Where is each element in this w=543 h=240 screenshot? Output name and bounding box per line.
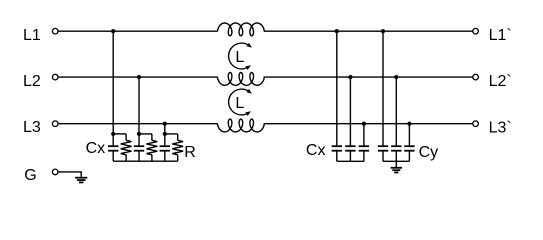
svg-text:L: L: [235, 49, 244, 66]
junction on L1 at x=336.8: [335, 29, 339, 33]
junction on L3 at x=409.4: [407, 122, 411, 126]
capacitor Cy on L1: [378, 145, 388, 147]
wire L1 down to Cy capacitor: [382, 31, 384, 146]
junction on L1 at x=113.2: [111, 29, 115, 33]
terminal L2` (right): [473, 74, 479, 80]
wire L2 down to Cx/R node: [138, 77, 140, 134]
capacitor Cx (L1 branch): [112, 134, 114, 146]
svg-text:L2: L2: [23, 73, 41, 90]
common bar of Cy group: [383, 160, 409, 162]
wire L1 left segment: [58, 30, 218, 32]
wire G terminal to ground: [58, 172, 81, 177]
terminal L3` (right): [473, 121, 479, 127]
svg-text:Cy: Cy: [419, 144, 439, 161]
svg-text:L3: L3: [23, 119, 41, 136]
choke winding-sense symbol 2: top arrowhead: [246, 89, 251, 94]
inductor winding on L1 (common-mode choke): [218, 23, 265, 36]
capacitor Cy on L3: [404, 145, 414, 147]
wire L2 right segment: [264, 76, 473, 78]
wire L2 down to Cy capacitor: [395, 77, 397, 146]
terminal G: [52, 169, 58, 175]
terminal L1 (left): [52, 28, 58, 34]
svg-text:R: R: [184, 144, 196, 161]
svg-text:L: L: [235, 95, 244, 112]
wire L1 down to Cx/R node: [112, 31, 114, 134]
terminal L1` (right): [473, 28, 479, 34]
svg-text:Cx: Cx: [86, 140, 106, 157]
wire node to resistor top (L1 branch): [113, 133, 126, 135]
choke winding-sense symbol 2: bottom arrowhead: [245, 111, 251, 116]
junction node on L1 branch: [111, 132, 115, 136]
wire L3 down to Cx (right) capacitor: [363, 124, 365, 147]
junction node on L3 branch: [163, 132, 167, 136]
svg-text:L3`: L3`: [489, 119, 512, 136]
svg-text:G: G: [24, 167, 36, 184]
star-point rail of Cx/R network: [113, 160, 178, 162]
junction on L3 at x=363.9: [362, 122, 366, 126]
choke winding-sense symbol 1: bottom arrowhead: [245, 65, 251, 70]
junction on L2 at x=350.4: [348, 75, 352, 79]
common bar of Cx (right) group: [337, 160, 364, 162]
inductor winding on L3 (common-mode choke): [218, 119, 265, 132]
capacitor Cx (L3 branch): [164, 134, 166, 146]
wire L3 down to Cx/R node: [164, 124, 166, 134]
wire L3 down to Cy capacitor: [408, 124, 410, 147]
wire L3 right segment: [264, 123, 473, 125]
choke winding-sense symbol 1: top arrowhead: [246, 43, 251, 48]
choke winding-sense symbol 2: arc: [229, 89, 250, 115]
ground symbol (Cy group): [391, 167, 402, 169]
junction on L1 at x=383.0: [381, 29, 385, 33]
resistor R (L2 branch): [151, 134, 153, 141]
wire node to resistor top (L2 branch): [139, 133, 152, 135]
junction on L2 at x=396.3: [394, 75, 398, 79]
wire Cy bar to ground: [395, 161, 397, 167]
wire L1 right segment: [264, 30, 473, 32]
capacitor Cy on L2: [391, 145, 401, 147]
capacitor Cx (L2 branch): [138, 134, 140, 146]
ground symbol (G terminal): [75, 177, 87, 179]
capacitor Cx (right) on L3: [359, 145, 369, 147]
inductor winding on L2 (common-mode choke): [218, 73, 265, 86]
junction on L2 at x=139.0: [137, 75, 141, 79]
resistor R (L1 branch): [125, 134, 127, 141]
junction node on L2 branch: [137, 132, 141, 136]
resistor R (L3 branch): [177, 134, 179, 141]
wire L1 down to Cx (right) capacitor: [336, 31, 338, 146]
svg-text:Cx: Cx: [306, 142, 326, 159]
choke winding-sense symbol 1: arc: [229, 43, 250, 69]
terminal L3 (left): [52, 121, 58, 127]
wire L2 down to Cx (right) capacitor: [349, 77, 351, 146]
capacitor Cx (right) on L2: [345, 145, 355, 147]
wire L2 left segment: [58, 76, 218, 78]
wire L3 left segment: [58, 123, 218, 125]
junction on L3 at x=164.8: [163, 122, 167, 126]
svg-text:L1: L1: [23, 27, 41, 44]
capacitor Cx (right) on L1: [332, 145, 342, 147]
svg-text:L2`: L2`: [489, 73, 512, 90]
terminal L2 (left): [52, 74, 58, 80]
wire node to resistor top (L3 branch): [165, 133, 178, 135]
svg-text:L1`: L1`: [489, 27, 512, 44]
